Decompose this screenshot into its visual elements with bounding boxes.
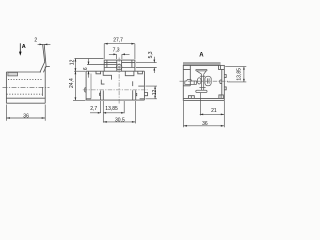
svg-text:6: 6 [83,67,89,70]
svg-text:30,5: 30,5 [115,117,125,123]
svg-text:24,4: 24,4 [69,78,75,88]
svg-text:13,85: 13,85 [105,106,118,112]
svg-text:2,7: 2,7 [90,106,97,112]
svg-text:36: 36 [202,121,208,127]
svg-text:13,85: 13,85 [236,68,242,81]
svg-text:12: 12 [70,59,76,65]
svg-text:7,3: 7,3 [113,48,120,54]
svg-text:12: 12 [152,90,158,96]
svg-text:36: 36 [23,113,29,119]
svg-text:A: A [22,44,26,50]
svg-text:21: 21 [211,108,217,114]
svg-text:2: 2 [34,38,37,44]
svg-text:27,7: 27,7 [113,38,123,44]
svg-text:A: A [199,53,204,59]
svg-text:5,3: 5,3 [148,51,154,58]
